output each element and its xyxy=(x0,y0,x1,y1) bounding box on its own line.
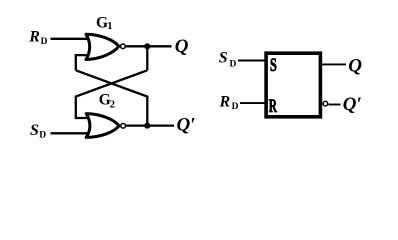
output bubble on Q' pin of block xyxy=(323,101,328,106)
NOR gate G1 body xyxy=(86,34,119,59)
svg-text:Q′: Q′ xyxy=(177,115,196,136)
wire Q output of block xyxy=(322,63,346,65)
wire G1 output to Q xyxy=(126,45,172,47)
svg-text:D: D xyxy=(230,60,237,70)
wire G1 lower input (feedback from Q&#39;) xyxy=(76,55,88,70)
wire Q' output of block xyxy=(329,104,341,106)
svg-text:Q: Q xyxy=(348,55,362,76)
wire cross diagonal from Q to G2 input xyxy=(76,70,148,118)
wire G2 output to Q' xyxy=(126,124,174,126)
svg-text:R: R xyxy=(269,96,277,117)
svg-text:1: 1 xyxy=(107,21,112,32)
wire R_D to G1 upper input xyxy=(51,38,89,40)
label S_D (left circuit input) xyxy=(30,122,46,141)
SR latch block xyxy=(266,53,320,117)
junction node Q xyxy=(144,43,150,49)
label G1 xyxy=(96,14,112,32)
wire S_D to G2 lower input xyxy=(51,132,89,134)
wire R_D to R pin xyxy=(240,102,266,104)
svg-text:2: 2 xyxy=(110,99,115,110)
svg-text:R: R xyxy=(219,94,231,111)
label R_D (block diagram input) xyxy=(219,94,239,112)
NOR gate G2 body xyxy=(86,114,119,138)
junction node Q' xyxy=(144,123,150,129)
label S_D (block diagram input) xyxy=(219,50,237,70)
wire cross diagonal from Q' to G1 input xyxy=(76,70,148,125)
svg-text:Q: Q xyxy=(175,36,189,57)
svg-text:R: R xyxy=(28,29,40,46)
svg-text:S: S xyxy=(270,55,277,76)
wire Q feedback: node Q down xyxy=(146,46,148,70)
label G2 xyxy=(99,91,115,110)
svg-text:D: D xyxy=(41,37,48,47)
output bubble G2 xyxy=(121,123,126,128)
wire S_D to S pin xyxy=(238,60,266,62)
svg-text:D: D xyxy=(232,102,239,112)
output bubble G1 xyxy=(121,44,126,49)
svg-text:Q′: Q′ xyxy=(343,94,362,115)
svg-text:S: S xyxy=(219,50,228,67)
svg-text:S: S xyxy=(30,122,39,139)
svg-text:D: D xyxy=(39,131,46,141)
label R_D (left circuit input) xyxy=(28,29,47,47)
